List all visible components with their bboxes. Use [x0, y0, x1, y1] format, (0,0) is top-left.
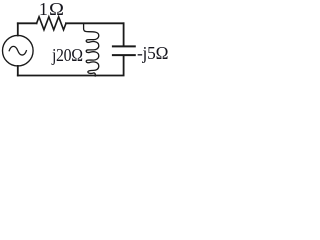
ac source sine wave: [9, 46, 26, 55]
wire source bottom stub: [17, 66, 19, 76]
wire source top stub: [17, 23, 19, 35]
label j20 ohm: [52, 45, 83, 66]
wire top rail: [18, 22, 37, 24]
inductor L (j20 ohm) coil with stubs: [84, 23, 99, 76]
label 1 ohm: [39, 0, 63, 20]
wire right drop to capacitor: [123, 23, 125, 46]
label -j5 ohm: [137, 43, 168, 64]
wire bottom rail: [18, 75, 96, 77]
capacitor C (-j5 ohm) top plate: [113, 45, 135, 47]
ac source VS circle: [2, 35, 33, 66]
wire capacitor bottom drop: [95, 56, 123, 76]
resistor R (1 ohm) zigzag: [37, 17, 66, 30]
capacitor C (-j5 ohm) bottom plate: [113, 54, 135, 56]
wire top rail right of resistor: [66, 22, 124, 24]
